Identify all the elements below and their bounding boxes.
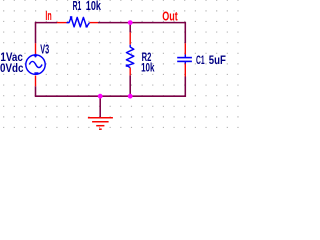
- svg-text:Out: Out: [162, 8, 178, 23]
- svg-text:R1: R1: [73, 0, 82, 13]
- svg-text:In: In: [45, 9, 51, 23]
- svg-text:0Vdc: 0Vdc: [0, 63, 24, 75]
- svg-text:C1: C1: [196, 53, 205, 67]
- svg-text:V3: V3: [40, 42, 49, 57]
- svg-text:10k: 10k: [86, 0, 102, 13]
- svg-text:5uF: 5uF: [209, 53, 226, 67]
- svg-text:10k: 10k: [141, 61, 155, 75]
